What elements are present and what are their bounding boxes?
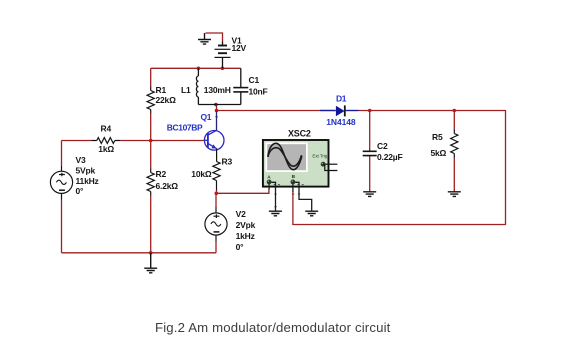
svg-text:0.22µF: 0.22µF	[377, 152, 402, 162]
svg-text:R4: R4	[101, 124, 112, 134]
svg-text:C1: C1	[249, 75, 260, 85]
svg-text:6.2kΩ: 6.2kΩ	[156, 181, 179, 191]
svg-text:Ext Trig: Ext Trig	[312, 153, 327, 158]
svg-text:10nF: 10nF	[249, 87, 268, 97]
svg-text:Q1: Q1	[201, 112, 212, 122]
svg-text:5Vpk: 5Vpk	[76, 165, 96, 175]
svg-text:R1: R1	[156, 85, 167, 95]
svg-text:R2: R2	[156, 169, 167, 179]
svg-text:R3: R3	[222, 156, 233, 166]
svg-text:0°: 0°	[76, 186, 85, 196]
svg-text:12V: 12V	[232, 43, 247, 53]
svg-text:5kΩ: 5kΩ	[431, 148, 447, 158]
svg-text:V3: V3	[76, 155, 86, 165]
svg-text:XSC2: XSC2	[288, 129, 311, 139]
svg-text:22kΩ: 22kΩ	[156, 95, 177, 105]
svg-text:C2: C2	[377, 141, 388, 151]
svg-text:B: B	[292, 174, 296, 180]
svg-text:1N4148: 1N4148	[326, 117, 356, 127]
svg-text:L1: L1	[181, 85, 191, 95]
svg-text:0°: 0°	[236, 242, 245, 252]
svg-text:R5: R5	[432, 132, 443, 142]
svg-text:1kHz: 1kHz	[236, 231, 255, 241]
svg-text:D1: D1	[336, 94, 347, 104]
svg-text:BC107BP: BC107BP	[167, 123, 203, 133]
svg-text:1kΩ: 1kΩ	[98, 144, 114, 154]
svg-text:2Vpk: 2Vpk	[236, 220, 256, 230]
svg-text:130mH: 130mH	[204, 85, 231, 95]
svg-text:V2: V2	[236, 209, 246, 219]
svg-text:A: A	[267, 174, 271, 180]
svg-text:Fig.2 Am modulator/demodulator: Fig.2 Am modulator/demodulator circuit	[155, 320, 391, 335]
svg-text:10kΩ: 10kΩ	[191, 169, 212, 179]
svg-text:11kHz: 11kHz	[76, 176, 99, 186]
